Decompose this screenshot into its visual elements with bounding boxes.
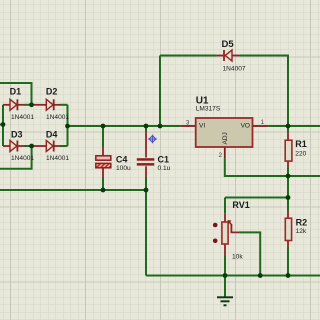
potentiometer RV1 [213, 200, 250, 260]
wire ADJ node down to R2 node [287, 176, 289, 198]
wire C4 bottom drop [102, 177, 104, 190]
wire R2 node to R2 top [287, 198, 289, 211]
wire left bottom rail [0, 189, 146, 191]
svg-text:1N4001: 1N4001 [46, 114, 69, 121]
svg-text:C1: C1 [158, 155, 170, 165]
wire D5 cathode lead [217, 55, 224, 57]
svg-text:1N4001: 1N4001 [11, 155, 34, 162]
node anode column [1, 122, 6, 127]
svg-text:ADJ: ADJ [222, 132, 229, 144]
wire C1 node down to bus corner [145, 190, 147, 276]
diode D4 [46, 130, 70, 162]
node D1-D2 [29, 102, 34, 107]
svg-text:D1: D1 [10, 87, 22, 97]
node VO [286, 124, 291, 129]
wire RV1 bottom lead [224, 244, 226, 256]
wire RV1 top lead [224, 213, 226, 222]
capacitor C1 [137, 155, 171, 173]
wire VO to right edge [268, 125, 320, 127]
wire D4 cathode lead [55, 145, 61, 147]
wire D2-D4 cathode column [67, 105, 69, 146]
svg-text:D3: D3 [11, 130, 23, 140]
wire main rail to U1 VI [68, 125, 181, 127]
wire D3 cathode to node [25, 145, 32, 147]
wire stub left edge to anode column [0, 124, 3, 126]
wire U1 pin2 [224, 147, 226, 158]
diode D5 [222, 39, 246, 73]
wire R2 top lead [287, 211, 289, 219]
svg-text:LM317S: LM317S [196, 106, 221, 113]
wire C4 top lead [102, 147, 104, 156]
node R2 top [286, 195, 291, 200]
wire C1 bottom drop [145, 178, 147, 191]
node D3-D4 [29, 144, 34, 149]
regulator U1 LM317S [186, 96, 265, 159]
wire ground bus to right edge [146, 275, 320, 277]
diode D1 [10, 87, 35, 121]
node C1 top [144, 124, 149, 129]
wire D2 anode lead [32, 104, 47, 106]
svg-text:D5: D5 [222, 39, 235, 50]
wire pot top drop [224, 198, 226, 214]
svg-text:D4: D4 [46, 130, 58, 140]
node R2 bus [286, 273, 291, 278]
wire R2 bottom lead [287, 241, 289, 249]
svg-text:D2: D2 [46, 87, 58, 97]
node bridge output [65, 124, 70, 129]
svg-text:C4: C4 [116, 155, 128, 165]
wire D1 cathode lead [18, 104, 25, 106]
wire R1 bottom to ADJ node [287, 168, 289, 176]
resistor R2 [285, 217, 307, 240]
wire VO node to R1 [287, 126, 289, 132]
wire C4 top drop [102, 126, 104, 147]
wire RV1 wiper lead [231, 224, 239, 232]
node C1 bottom [144, 188, 149, 193]
wire D4 cathode to corner [61, 145, 68, 147]
wire U1 pin3 [180, 125, 195, 127]
svg-text:RV1: RV1 [232, 200, 249, 210]
svg-text:R2: R2 [296, 217, 308, 227]
wire wiper run right [239, 232, 260, 275]
capacitor C4 [96, 155, 131, 172]
resistor R1 [285, 139, 307, 161]
wire R1 top lead [287, 132, 289, 141]
wire D4 anode lead [32, 145, 47, 147]
wire C1 bottom lead [145, 166, 147, 177]
svg-text:10k: 10k [232, 254, 243, 261]
node ground tap [223, 273, 228, 278]
svg-text:220: 220 [295, 151, 306, 158]
svg-text:12k: 12k [296, 228, 307, 235]
diode D3 [10, 130, 34, 162]
wire D1 anode lead [3, 104, 10, 106]
wire pot bottom to ground bus [224, 256, 226, 276]
wire R1 bottom lead [287, 161, 289, 168]
node ADJ-R1 [286, 174, 291, 179]
wire top rail left of D5 [160, 55, 217, 57]
node wiper bus [258, 273, 263, 278]
wire U1 pin1 [253, 125, 269, 127]
svg-text:VI: VI [199, 122, 205, 129]
svg-text:VO: VO [241, 122, 250, 129]
wire top rail right of D5 down to VO node [240, 56, 288, 127]
diode D2 [46, 87, 70, 121]
ground [217, 276, 233, 306]
wire D3 cathode lead [18, 145, 25, 147]
svg-text:1N4001: 1N4001 [11, 114, 34, 121]
node VI riser [158, 124, 163, 129]
wire C1 top drop [145, 126, 147, 132]
wire C4 bottom lead [102, 168, 104, 177]
wire AC2 from D3-D4 node to left edge [0, 146, 32, 169]
wire D5 anode lead [232, 55, 240, 57]
node C4 top [101, 124, 106, 129]
origin marker [148, 135, 157, 144]
wire VI node to D5 top rail [159, 56, 161, 127]
svg-text:0.1u: 0.1u [158, 165, 171, 172]
wire D3 anode lead [3, 145, 10, 147]
svg-text:1N4001: 1N4001 [46, 155, 69, 162]
wire R2 bottom to bus [287, 248, 289, 276]
svg-text:100u: 100u [116, 165, 131, 172]
wire R2 node left to pot column [225, 197, 288, 199]
wire AC1 top-left from edge [0, 83, 32, 105]
svg-text:1N4007: 1N4007 [223, 66, 246, 73]
wire D2 cathode to corner [61, 104, 68, 106]
component leads (maroon) [3, 56, 288, 257]
wire C1 top lead [145, 132, 147, 158]
wire left anode column [2, 105, 4, 146]
wire D1 cathode to node [25, 104, 32, 106]
node C4 bottom [101, 188, 106, 193]
wire D2 cathode lead [55, 104, 61, 106]
wire ADJ pin down and right to edge [225, 158, 320, 176]
svg-text:R1: R1 [295, 139, 307, 149]
